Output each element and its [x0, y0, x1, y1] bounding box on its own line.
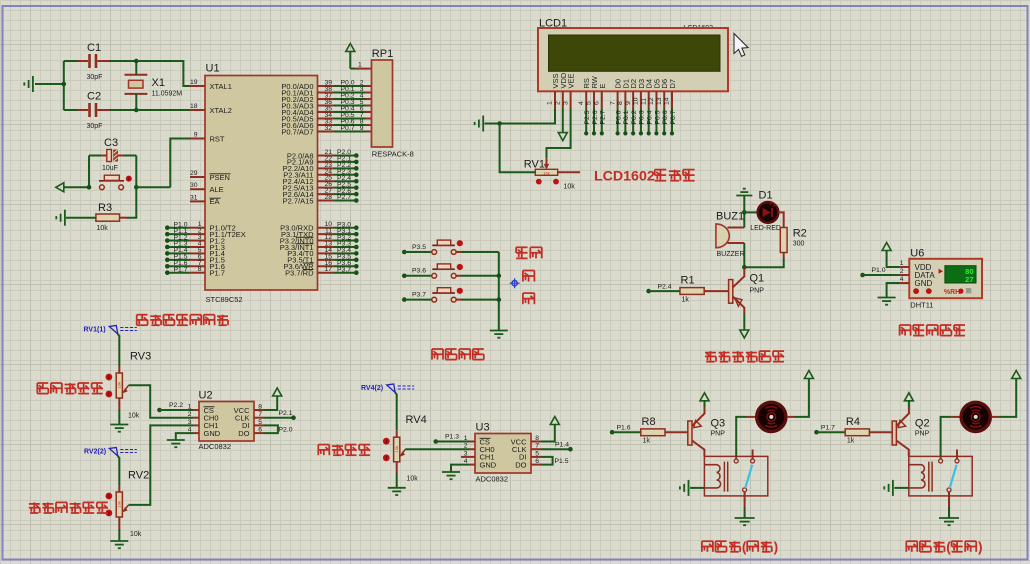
svg-text:Q3: Q3	[711, 418, 726, 430]
svg-text:P2.4: P2.4	[658, 283, 672, 290]
wire XTAL2 to U1	[136, 109, 190, 111]
svg-text:2: 2	[555, 101, 562, 105]
node P1.0 wire to U6 DATA	[860, 273, 865, 278]
svg-text:32: 32	[324, 125, 332, 132]
push button P3.6 row net P3.6	[402, 274, 407, 279]
wire C3 left leg	[88, 156, 90, 188]
svg-text:7: 7	[535, 443, 539, 450]
label gas adjust caption	[29, 502, 40, 513]
U3 pin 3 CH1	[461, 456, 475, 458]
wire buzzer top to junction	[743, 215, 745, 228]
wire LCD pin D3 to net P0.3	[640, 109, 642, 133]
svg-text:10uF: 10uF	[102, 165, 118, 172]
svg-text:17: 17	[324, 266, 332, 273]
node alarm bottom junction	[742, 265, 747, 270]
U3 pin 8 VCC	[531, 441, 541, 443]
U3 pin 2 CH0	[469, 448, 475, 450]
U1 pin 30 ALE	[190, 188, 205, 190]
U1 pin 31 EA	[190, 200, 205, 202]
origin marker	[512, 281, 517, 286]
svg-text:C3: C3	[104, 137, 118, 149]
ground under RV4	[396, 474, 398, 488]
svg-text:10k: 10k	[564, 184, 576, 191]
U1 pin 23 P2.2/A10 dangling net P2.2	[318, 167, 335, 169]
wire LCD VDD to power-down terminal	[562, 109, 564, 132]
svg-text:D7: D7	[668, 79, 677, 89]
svg-text:X1: X1	[152, 77, 165, 89]
U1 pin 7 P1.6 with net label P1.6	[190, 265, 205, 267]
svg-text:P0.6: P0.6	[662, 110, 669, 124]
power-down terminal at Q1	[740, 330, 749, 338]
svg-text:31: 31	[190, 194, 198, 201]
ground at crystal caps	[35, 83, 64, 85]
power terminal at motor	[1012, 371, 1021, 379]
svg-text:18: 18	[190, 103, 198, 110]
U1 pin 9 RST	[190, 138, 205, 140]
svg-text:30: 30	[190, 182, 198, 189]
power terminal at Q2	[904, 393, 913, 401]
svg-text:BUZ1: BUZ1	[716, 211, 744, 223]
svg-text:30pF: 30pF	[87, 123, 103, 130]
wire XTAL1 to U1	[136, 61, 190, 86]
svg-text:3: 3	[188, 419, 192, 426]
wire LCD pin RS to net P2.5	[585, 109, 587, 133]
U1 pin 10 P3.0/RXD dangling net P3.0	[318, 227, 335, 229]
svg-text:P2.6: P2.6	[592, 110, 599, 124]
svg-text:R4: R4	[846, 416, 860, 428]
svg-text:U1: U1	[206, 63, 220, 75]
wire U2 CLK net P2.1	[264, 417, 293, 419]
svg-text:P0.3: P0.3	[639, 110, 646, 124]
node cap-left junction	[62, 82, 67, 87]
wire LCD pin D0 to net P0.0	[617, 109, 619, 133]
power terminal at U3	[550, 417, 559, 425]
svg-text:P2.2: P2.2	[169, 402, 183, 409]
mouse cursor	[734, 34, 748, 57]
svg-text:VEE: VEE	[567, 73, 576, 88]
ground under RV3	[118, 410, 120, 424]
svg-text:4: 4	[578, 101, 585, 105]
svg-text:19: 19	[190, 79, 198, 86]
svg-text:3: 3	[464, 450, 468, 457]
relay moving contact	[947, 488, 951, 492]
LCD screen	[549, 35, 721, 71]
wire LCD VSS to ground	[500, 109, 555, 124]
wire keys common rail	[498, 252, 500, 331]
U6 adjust buttons and RH label	[913, 288, 919, 294]
node key rail junction P3.7	[497, 297, 502, 302]
svg-text:P1.4: P1.4	[555, 441, 569, 448]
svg-text:10k: 10k	[117, 382, 122, 388]
node P2.2 wire to U2 CS	[157, 408, 162, 413]
node P1.7 wire to R4	[814, 430, 819, 435]
svg-text:P2.7/A15: P2.7/A15	[283, 196, 314, 205]
ground at relay coil	[690, 487, 704, 489]
wire Q2 collector to relay coil	[896, 441, 908, 457]
wire U6 GND to ground	[887, 283, 899, 297]
wire U3 GND to ground	[451, 465, 469, 472]
U1 pin 27 P2.6/A14 dangling net P2.6	[318, 193, 335, 195]
push button P3.7 row net P3.7	[402, 297, 407, 302]
svg-text:P0.0: P0.0	[615, 110, 622, 124]
U1 pin 6 P1.5 with net label P1.5	[190, 259, 205, 261]
wire LCD pin E to net P2.7	[601, 109, 603, 133]
power terminal at Q3	[700, 393, 709, 401]
relay contact common	[940, 456, 942, 459]
U1 pin 21 P2.0/A8 dangling net P2.0	[318, 155, 335, 157]
svg-text:8: 8	[617, 101, 624, 105]
svg-text:5: 5	[258, 419, 262, 426]
U1 pin 17 P3.7/RD dangling net P3.7	[318, 272, 335, 274]
relay contact NO pin	[752, 450, 754, 460]
power terminal at motor	[804, 371, 813, 379]
U2 pin 7 CLK	[254, 417, 264, 419]
node P2.4 wire to R1	[646, 289, 651, 294]
svg-text:1k: 1k	[847, 438, 855, 445]
node key rail junction P3.6	[497, 274, 502, 279]
svg-text:U3: U3	[476, 422, 490, 434]
wire RV4 wiper to U3 CH0	[405, 448, 469, 450]
relay RL coil and contacts	[909, 456, 972, 496]
svg-text:P0.7: P0.7	[670, 110, 677, 124]
power terminal at U6	[882, 243, 891, 251]
U1 pin 34 P0.5/AD5 wire to RP1 pin 7 net P0.5	[318, 118, 335, 120]
U1 pin 1 P1.0/T2 with net label P1.0	[190, 227, 205, 229]
U1 pin 35 P0.4/AD4 wire to RP1 pin 6 net P0.4	[318, 111, 335, 113]
wire Q3 collector to relay coil	[692, 441, 704, 457]
svg-text:P1.7: P1.7	[210, 269, 225, 278]
U1 pin 37 P0.2/AD2 wire to RP1 pin 4 net P0.2	[318, 98, 335, 100]
U3 pin 5 DI	[531, 456, 541, 458]
svg-text:R2: R2	[793, 228, 807, 240]
svg-text:P1.6: P1.6	[617, 424, 631, 431]
svg-text:XTAL1: XTAL1	[210, 82, 232, 91]
svg-text:BUZZER: BUZZER	[717, 251, 745, 258]
node XTAL bottom junction	[134, 108, 139, 113]
svg-text:9: 9	[360, 125, 364, 132]
wire LCD pin D4 to net P0.4	[648, 109, 650, 133]
ground at R3	[66, 217, 96, 219]
svg-text:7: 7	[258, 411, 262, 418]
svg-text:D1: D1	[759, 190, 773, 202]
svg-text:): )	[978, 540, 983, 555]
svg-text:P0.7: P0.7	[341, 125, 355, 132]
svg-text:11.0592M: 11.0592M	[152, 91, 183, 98]
label minus text	[523, 293, 535, 304]
push button P3.5 row net P3.5	[402, 250, 407, 255]
svg-text:Q2: Q2	[915, 418, 930, 430]
svg-text:(: (	[946, 540, 951, 555]
svg-text:27: 27	[965, 275, 973, 284]
svg-text:14: 14	[664, 97, 671, 105]
wire U2 GND to ground	[176, 433, 193, 439]
U1 pin 8 P1.7 with net label P1.7	[190, 272, 205, 274]
svg-text:P0.7/AD7: P0.7/AD7	[281, 127, 313, 136]
U2 pin 2 CH0	[193, 417, 199, 419]
svg-text:DO: DO	[515, 460, 526, 469]
U1 pin 2 P1.1/T2EX with net label P1.1	[190, 233, 205, 235]
wire LCD pin D1 to net P0.1	[624, 109, 626, 133]
wire relay to motor	[736, 417, 746, 457]
wire RV3 wiper to U2 CH0	[129, 385, 193, 417]
wire R8 to Q3 base	[665, 431, 688, 433]
U2 pin 3 CH1	[193, 424, 199, 426]
wire relay pole to ground	[948, 492, 950, 507]
wire Q1 emitter to terminal	[743, 314, 745, 330]
wire buzzer bottom to emitter node	[743, 243, 745, 265]
U3 pin 1 CS	[469, 441, 475, 443]
svg-text:2: 2	[188, 411, 192, 418]
svg-text:1: 1	[358, 62, 362, 69]
wire cap left rail	[63, 61, 65, 110]
wire R3 to reset node	[120, 217, 128, 219]
svg-text:P0.4: P0.4	[646, 110, 653, 124]
svg-text:P3.7: P3.7	[412, 291, 426, 298]
svg-text:10k: 10k	[128, 413, 140, 420]
label smoke adjust caption	[37, 383, 48, 394]
svg-text:7: 7	[609, 101, 616, 105]
wire LCD pin D5 to net P0.5	[655, 109, 657, 133]
wire C3 right leg	[135, 156, 137, 188]
svg-text:10k: 10k	[97, 225, 109, 232]
svg-text:1: 1	[900, 260, 904, 267]
svg-text:1: 1	[547, 101, 554, 105]
svg-text:GND: GND	[480, 460, 497, 469]
svg-text:Q1: Q1	[750, 273, 765, 285]
svg-text:5: 5	[586, 101, 593, 105]
svg-text:P2.7: P2.7	[600, 110, 607, 124]
svg-text:GND: GND	[915, 279, 933, 288]
U1 pin 4 P1.3 with net label P1.3	[190, 246, 205, 248]
svg-text:): )	[774, 540, 779, 555]
U2 pin 1 CS	[193, 409, 199, 411]
U1 pin 18 XTAL2	[190, 109, 205, 111]
svg-text:U2: U2	[199, 390, 213, 402]
U1 pin 24 P2.3/A11 dangling net P2.3	[318, 174, 335, 176]
svg-text:LCD1602: LCD1602	[594, 169, 655, 185]
svg-text:PNP: PNP	[750, 288, 765, 295]
wire Q3 emitter to power	[704, 401, 706, 407]
svg-text:ADC0832: ADC0832	[476, 475, 509, 484]
svg-text:PNP: PNP	[711, 431, 726, 438]
svg-text:RV2(2): RV2(2)	[84, 448, 106, 455]
U2 pin 8 VCC	[254, 409, 264, 411]
power terminal left at reset	[64, 186, 89, 188]
svg-text:RV4: RV4	[406, 414, 427, 426]
svg-text:9: 9	[625, 101, 632, 105]
wire U3 CLK net P1.4	[541, 448, 569, 450]
svg-text:P1.0: P1.0	[872, 267, 886, 274]
U1 pin 29 PSEN	[190, 176, 205, 178]
svg-text:5: 5	[535, 450, 539, 457]
node LCD ground junction	[497, 121, 502, 126]
label benzene adjust caption	[318, 445, 329, 456]
wire reset to RST pin	[136, 186, 170, 188]
node reset-right junction	[134, 185, 139, 190]
U6 pin 1 VDD	[899, 266, 909, 268]
node alarm top junction	[742, 210, 747, 215]
svg-text:10k: 10k	[407, 476, 419, 483]
svg-text:8: 8	[535, 435, 539, 442]
svg-text:PNP: PNP	[915, 431, 930, 438]
svg-text:10k: 10k	[394, 446, 399, 452]
node XTAL top junction	[134, 59, 139, 64]
svg-text:10k: 10k	[117, 501, 122, 507]
U2 pin 5 DI	[254, 424, 264, 426]
svg-text:R1: R1	[681, 275, 695, 287]
U1 pin 12 P3.2/INT0 dangling net P3.2	[318, 240, 335, 242]
svg-text:P2.5: P2.5	[584, 110, 591, 124]
wire LCD pin D2 to net P0.2	[632, 109, 634, 133]
ground at U2	[167, 440, 185, 447]
svg-text:RV3: RV3	[130, 351, 151, 363]
wire relay pole to ground	[744, 492, 746, 507]
svg-text:6: 6	[594, 101, 601, 105]
wire Q2 emitter to power	[908, 401, 910, 407]
svg-text:E: E	[598, 83, 607, 88]
label relay caption	[906, 541, 917, 552]
U3 pin 4 GND	[469, 464, 475, 466]
U1 pin 13 P3.3/INT1 dangling net P3.3	[318, 246, 335, 248]
wire LCD pin RW to net P2.6	[593, 109, 595, 133]
svg-text:(: (	[742, 540, 747, 555]
svg-text:P0.2: P0.2	[631, 110, 638, 124]
svg-text:1k: 1k	[682, 297, 690, 304]
label settings text	[516, 247, 528, 258]
U2 pin 4 GND	[193, 432, 199, 434]
svg-text:XTAL2: XTAL2	[210, 106, 232, 115]
U1 pin 5 P1.4 with net label P1.4	[190, 252, 205, 254]
wire U3 DI DO tied net P1.5	[541, 457, 553, 465]
wire relay to motor	[941, 417, 951, 457]
ground at relay	[735, 518, 755, 525]
reset push button	[100, 185, 105, 190]
U3 pin 6 DO	[531, 464, 541, 466]
svg-text:9: 9	[194, 132, 198, 139]
svg-text:DO: DO	[238, 429, 249, 438]
U1 pin 39 P0.0/AD0 wire to RP1 pin 2 net P0.0	[318, 85, 335, 87]
U6 pin 4 GND	[899, 282, 909, 284]
relay moving contact	[743, 488, 747, 492]
wire U2 VCC to power	[264, 397, 277, 411]
svg-text:RESPACK-8: RESPACK-8	[372, 150, 414, 159]
relay RL coil and contacts	[704, 456, 767, 496]
U1 pin 33 P0.6/AD6 wire to RP1 pin 8 net P0.6	[318, 124, 335, 126]
svg-text:8: 8	[258, 404, 262, 411]
svg-text:ALE: ALE	[210, 185, 224, 194]
U1 pin 38 P0.1/AD1 wire to RP1 pin 3 net P0.1	[318, 92, 335, 94]
svg-text:P3.5: P3.5	[412, 244, 426, 251]
svg-text:30pF: 30pF	[87, 74, 103, 81]
U1 pin 26 P2.5/A13 dangling net P2.5	[318, 187, 335, 189]
svg-text:P1.7: P1.7	[821, 424, 835, 431]
node reset-left junction	[87, 185, 92, 190]
label independent keys caption	[432, 349, 443, 360]
wire motor to power	[787, 416, 795, 418]
label plus text	[523, 271, 535, 282]
svg-text:3: 3	[562, 101, 569, 105]
ground at keys	[490, 331, 508, 338]
U1 pin 11 P3.1/TXD dangling net P3.1	[318, 233, 335, 235]
U1 pin 36 P0.3/AD3 wire to RP1 pin 5 net P0.3	[318, 105, 335, 107]
svg-text:300: 300	[793, 241, 805, 248]
label temperature-humidity caption	[900, 325, 911, 336]
U3 pin 7 CLK	[531, 448, 541, 450]
label alarm caption	[705, 351, 716, 362]
ground at U6	[878, 298, 896, 305]
label MCU minimal system caption	[137, 315, 148, 326]
svg-text:10: 10	[633, 97, 640, 105]
U6 pin 2 DATA	[899, 274, 909, 276]
U1 pin 32 P0.7/AD7 wire to RP1 pin 9 net P0.7	[318, 131, 335, 133]
relay switch blade	[745, 465, 752, 488]
svg-text:ADC0832: ADC0832	[199, 442, 232, 451]
power terminal at RP1	[346, 44, 355, 52]
svg-text:P2.7: P2.7	[337, 194, 351, 201]
ground under RV2	[118, 529, 120, 541]
svg-text:P0.5: P0.5	[654, 110, 661, 124]
svg-text:1k: 1k	[643, 438, 651, 445]
label relay caption	[702, 541, 713, 552]
svg-text:6: 6	[535, 458, 539, 465]
U6 display screen	[945, 266, 976, 283]
wire U3 VCC to power	[541, 425, 555, 442]
ground at LCD VSS	[485, 123, 500, 125]
svg-text:P2.0: P2.0	[279, 426, 293, 433]
svg-text:P2.1: P2.1	[279, 410, 293, 417]
svg-text:P3.7: P3.7	[337, 266, 351, 273]
svg-text:10k: 10k	[543, 170, 549, 175]
svg-text:R3: R3	[98, 202, 112, 214]
svg-text:2: 2	[464, 443, 468, 450]
wire RV2 wiper to U2 CH1	[129, 425, 193, 505]
U1 pin 3 P1.2 with net label P1.2	[190, 240, 205, 242]
svg-text:RP1: RP1	[372, 48, 393, 60]
wire R4 to Q2 base	[869, 431, 892, 433]
U1 pin 19 XTAL1	[190, 85, 205, 87]
wire LCD VEE to RV1 wiper	[547, 109, 571, 159]
node P1.6 wire to R8	[610, 430, 615, 435]
power rail terminal at alarm top	[736, 189, 752, 196]
wire LCD pin D7 to net P0.7	[671, 109, 673, 133]
power terminal at U2	[273, 388, 282, 396]
ground at relay	[939, 518, 959, 525]
svg-text:P3.6: P3.6	[412, 268, 426, 275]
wire LCD pin D6 to net P0.6	[663, 109, 665, 133]
svg-text:RV4(2): RV4(2)	[361, 385, 383, 392]
svg-text:R8: R8	[642, 416, 656, 428]
relay contact NO pin	[956, 450, 958, 460]
svg-text:RV1(1): RV1(1)	[84, 326, 106, 333]
svg-text:U6: U6	[910, 248, 924, 260]
svg-text:RST: RST	[210, 134, 225, 143]
svg-text:RV2: RV2	[128, 470, 149, 482]
relay switch blade	[950, 465, 957, 488]
svg-text:4: 4	[900, 276, 904, 283]
wire U2 DI DO tied net P2.0	[264, 425, 278, 433]
svg-text:C1: C1	[87, 42, 101, 54]
relay contact common	[735, 456, 737, 459]
wire motor to power	[991, 416, 999, 418]
svg-text:C2: C2	[87, 91, 101, 103]
svg-text:P1.3: P1.3	[445, 434, 459, 441]
svg-text:P1.5: P1.5	[555, 458, 569, 465]
U1 pin 15 P3.5/T1 dangling net P3.5	[318, 259, 335, 261]
svg-text:STC89C52: STC89C52	[206, 295, 243, 304]
svg-text:13: 13	[656, 97, 663, 105]
motor	[961, 402, 990, 431]
U1 pin 25 P2.4/A12 dangling net P2.4	[318, 180, 335, 182]
